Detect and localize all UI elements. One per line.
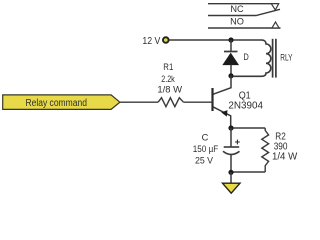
svg-text:RLY: RLY (280, 52, 292, 62)
relay coil core bar 2 (275, 39, 277, 78)
svg-text:2.2k: 2.2k (161, 74, 175, 84)
wire 12V rail (169, 39, 262, 41)
wire R1 to base (184, 101, 213, 103)
capacitor C curved plate (223, 151, 240, 154)
relay coil RLY winding (233, 40, 271, 76)
capacitor C bottom lead (230, 155, 232, 173)
wire emitter row (231, 127, 265, 129)
wire to ground (230, 172, 232, 183)
resistor R1 (158, 98, 183, 107)
svg-text:C: C (202, 133, 209, 143)
relay contact NO terminal triangle (272, 22, 279, 28)
svg-text:1/8 W: 1/8 W (157, 84, 182, 94)
svg-text:2N3904: 2N3904 (228, 101, 263, 112)
svg-text:NO: NO (230, 16, 244, 26)
diode D body (223, 53, 239, 65)
svg-text:D: D (243, 52, 249, 62)
capacitor C top lead (230, 128, 232, 147)
svg-text:Relay command: Relay command (25, 98, 87, 109)
relay contact NO line (208, 27, 281, 29)
relay switch blade wire (208, 9, 280, 15)
wire collector (213, 76, 231, 95)
svg-text:12 V: 12 V (142, 35, 160, 47)
transistor Q1 emitter (213, 107, 231, 128)
node emitter junction (228, 125, 233, 130)
relay contact NC line (208, 3, 279, 5)
wire diode anode stub (230, 65, 232, 76)
svg-text:R1: R1 (163, 62, 173, 72)
capacitor C polarity plus (235, 140, 240, 145)
relay contact NC terminal triangle (271, 4, 278, 10)
transistor Q1 emitter arrow (221, 110, 227, 117)
relay coil core bar 1 (272, 39, 274, 78)
transistor Q1 base bar (211, 88, 213, 111)
svg-text:1/4 W: 1/4 W (272, 152, 298, 163)
node ground junction (228, 170, 233, 175)
svg-text:150 µF: 150 µF (193, 144, 219, 154)
svg-text:NC: NC (230, 4, 244, 14)
wire banner to R1 (120, 101, 158, 103)
svg-text:25 V: 25 V (195, 155, 214, 165)
wire diode cathode stub (230, 40, 232, 52)
capacitor C top plate (224, 146, 240, 148)
node rail/diode junction (228, 37, 233, 42)
wire bottom row (231, 171, 265, 173)
12V supply terminal (163, 37, 169, 43)
node diode/coil/collector junction (228, 73, 233, 78)
diode D cathode bar (224, 51, 238, 53)
yellow input banner Relay command (3, 95, 120, 110)
resistor R2 (262, 128, 269, 172)
ground (223, 183, 241, 193)
